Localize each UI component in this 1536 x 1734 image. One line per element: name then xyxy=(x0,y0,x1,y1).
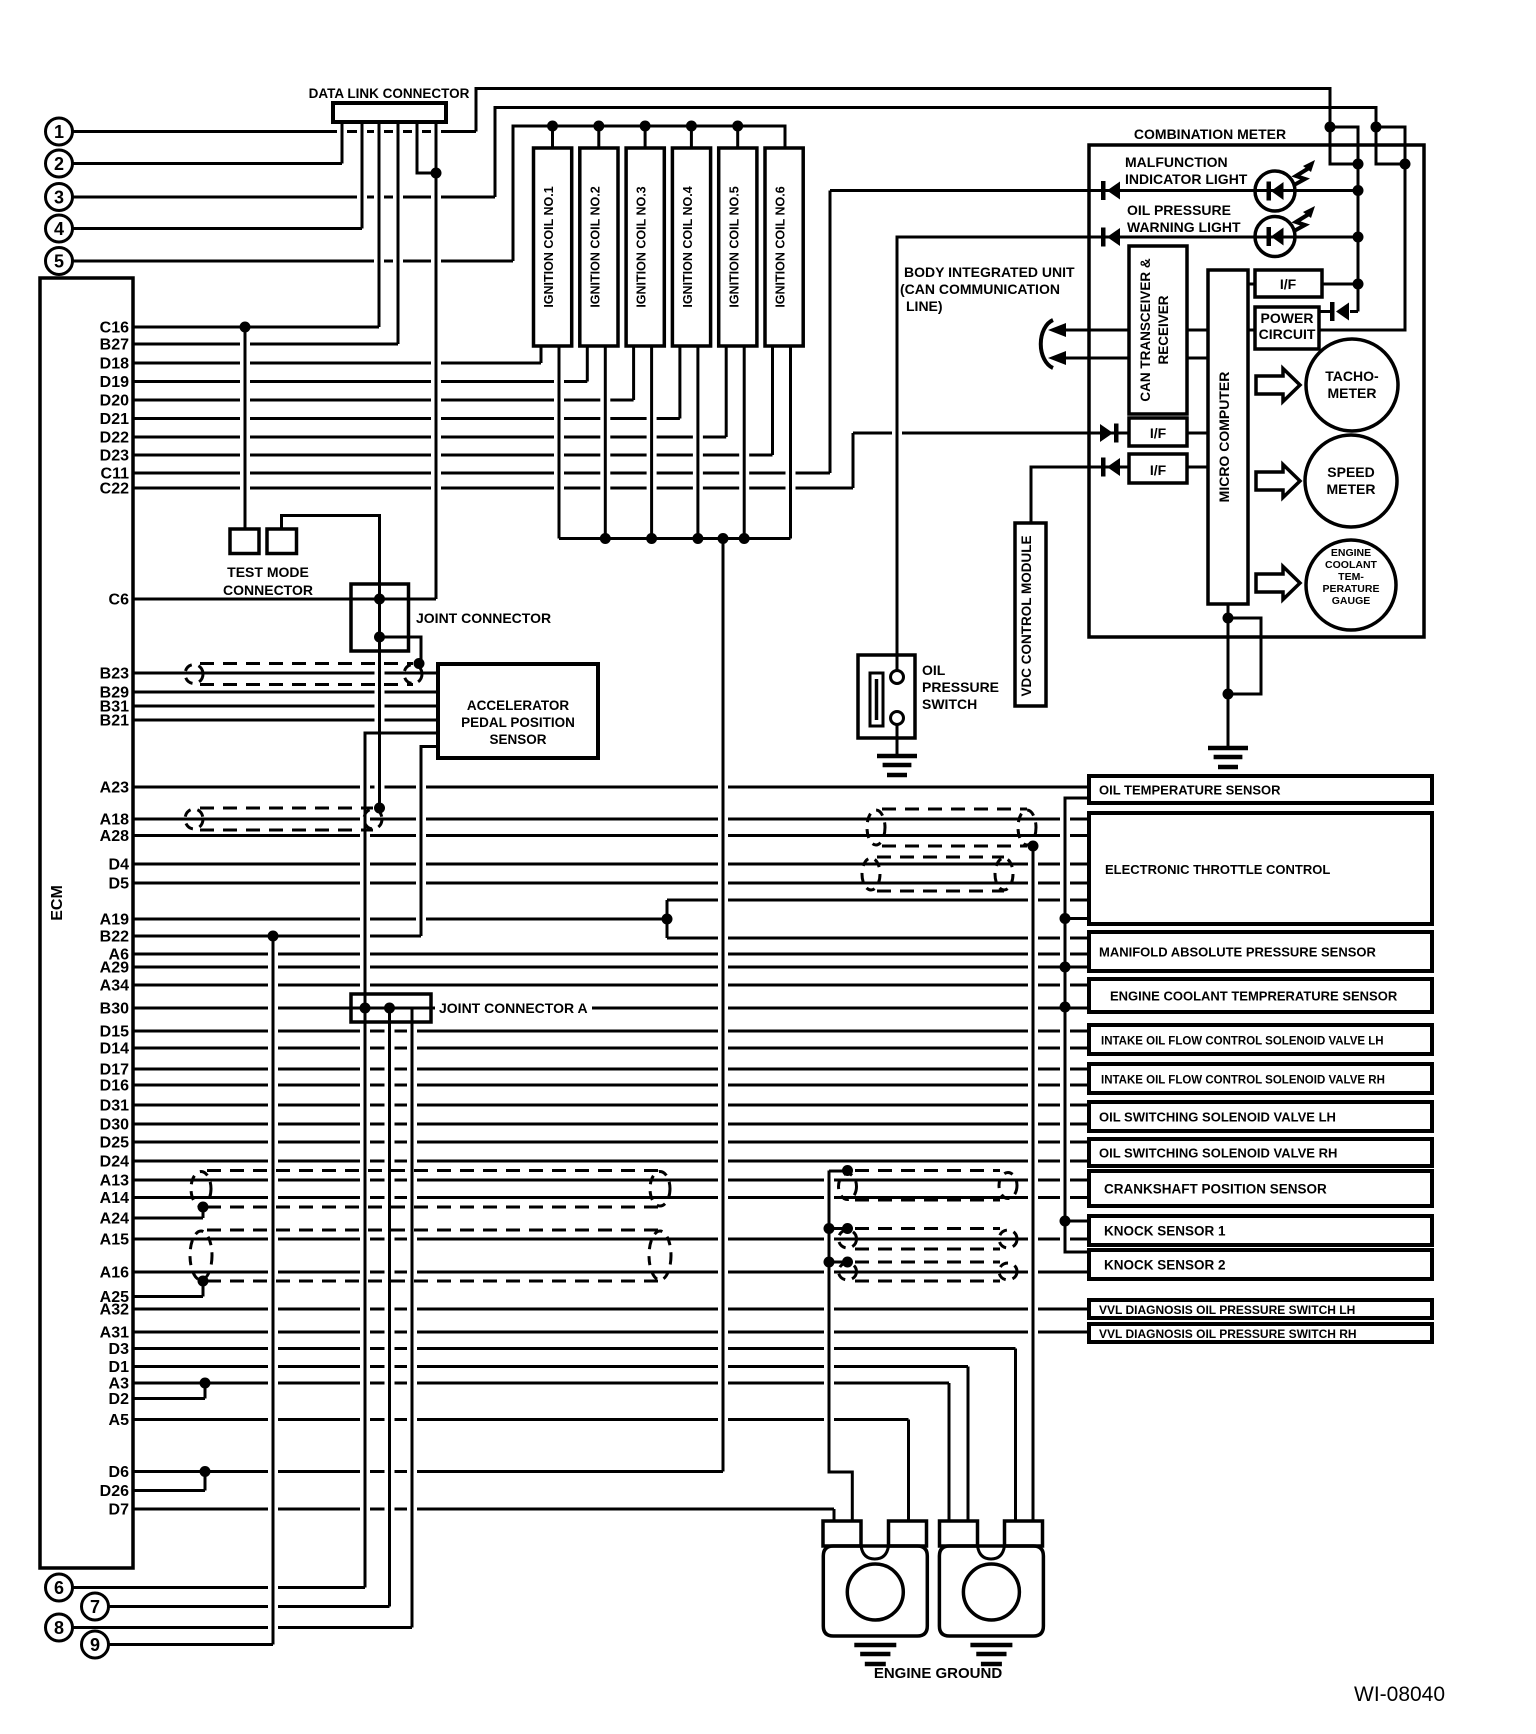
wire A34 to coolant temperature sensor xyxy=(133,984,1089,987)
svg-text:D2: D2 xyxy=(109,1391,130,1408)
svg-text:A15: A15 xyxy=(100,1232,129,1249)
svg-text:ACCELERATOR: ACCELERATOR xyxy=(467,698,570,713)
svg-text:ENGINE GROUND: ENGINE GROUND xyxy=(874,1665,1003,1682)
svg-text:D21: D21 xyxy=(100,411,129,428)
oil switching solenoid valve LH box xyxy=(1089,1102,1432,1131)
junction shield mid-2b xyxy=(842,1223,853,1234)
oil pressure switch ground wire xyxy=(896,725,899,757)
wire B23 to accelerator pedal sensor xyxy=(133,672,438,675)
svg-text:VDC CONTROL MODULE: VDC CONTROL MODULE xyxy=(1019,536,1034,697)
wire C6 to joint connector xyxy=(133,598,436,601)
manifold absolute pressure sensor box label xyxy=(1099,945,1376,960)
micro computer label xyxy=(1216,372,1232,503)
wire from terminal 1 xyxy=(73,89,1359,165)
sensor ground bus wire xyxy=(1065,798,1089,1252)
wire D3 trunk xyxy=(133,1347,1016,1350)
diode MIL input xyxy=(1101,181,1120,200)
coil ground pins xyxy=(559,346,791,539)
malfunction indicator light label xyxy=(1125,154,1248,187)
engine ground label xyxy=(874,1665,1003,1682)
ignition coil NO.2 box xyxy=(580,148,618,346)
CAN bus wires to body integrated unit xyxy=(1062,330,1129,358)
wire I/F top to supply xyxy=(1322,283,1358,286)
test mode connector terminal 1 xyxy=(230,529,259,554)
I/F top label xyxy=(1280,276,1297,292)
svg-text:2: 2 xyxy=(54,154,64,174)
svg-text:MANIFOLD ABSOLUTE PRESSURE SEN: MANIFOLD ABSOLUTE PRESSURE SENSOR xyxy=(1099,945,1376,960)
wire A16 to knock sensor 2 xyxy=(133,1271,1089,1274)
svg-text:RECEIVER: RECEIVER xyxy=(1156,295,1171,364)
junction shield A18/A28 drain xyxy=(1028,841,1039,852)
junction JCA-1 xyxy=(360,1003,371,1014)
ignition coil NO.4 box xyxy=(672,148,710,346)
oil pressure switch ground xyxy=(877,756,917,775)
electronic throttle control box xyxy=(1089,813,1432,924)
svg-text:D31: D31 xyxy=(100,1098,129,1115)
wire from terminal 3 xyxy=(73,108,1406,198)
intake oil flow control solenoid valve LH box xyxy=(1089,1025,1432,1054)
shield around A13/A14 wires xyxy=(191,1171,670,1208)
wire B31 to accelerator pedal sensor xyxy=(133,705,438,708)
svg-text:A24: A24 xyxy=(100,1211,129,1228)
svg-text:D16: D16 xyxy=(100,1078,129,1095)
joint connector A box xyxy=(351,994,431,1022)
crankshaft position sensor box label xyxy=(1104,1182,1327,1197)
wire D17 to solenoid valve xyxy=(133,1068,1089,1071)
I/F box top xyxy=(1255,270,1322,297)
shield around A15/A16 wires xyxy=(190,1230,671,1281)
svg-text:METER: METER xyxy=(1327,481,1376,497)
svg-text:POWER: POWER xyxy=(1261,310,1314,326)
ECM connector box xyxy=(40,278,133,1568)
engine ground lug right xyxy=(939,1546,1043,1636)
node 6 (circled terminal 6) xyxy=(46,1574,73,1601)
knock sensor 1 box label xyxy=(1104,1224,1226,1239)
svg-text:INDICATOR LIGHT: INDICATOR LIGHT xyxy=(1125,171,1248,187)
diode I/F 3 xyxy=(1101,458,1120,477)
wire D1 drop to engine ground xyxy=(967,1367,970,1521)
wire A32 to VVL oil pressure switch LH xyxy=(133,1308,1089,1311)
svg-text:SPEED: SPEED xyxy=(1327,464,1374,480)
wire terminal 8 xyxy=(73,1626,413,1629)
I/F box 2 xyxy=(1129,418,1187,446)
wire D30 to solenoid valve xyxy=(133,1123,1089,1126)
diode power circuit xyxy=(1330,302,1349,321)
svg-text:5: 5 xyxy=(54,252,64,272)
svg-text:C22: C22 xyxy=(100,481,129,498)
shield around A18/A28 wires (throttle) xyxy=(867,809,1036,846)
wire D18 to ignition coil 1 xyxy=(133,362,541,365)
CAN transceiver box xyxy=(1129,246,1187,414)
coil supply stubs xyxy=(553,126,738,148)
coil 1 signal pin xyxy=(540,346,543,363)
wire A5 drop to engine ground xyxy=(907,1420,910,1521)
malfunction indicator LED xyxy=(1255,171,1295,211)
coil bus junctions xyxy=(600,533,750,544)
sensor ground bus stubs xyxy=(1065,919,1089,1222)
wire A3 drop to engine ground xyxy=(948,1383,951,1520)
CAN arrowhead 1 xyxy=(1048,323,1066,337)
shield around A13/A14 wires (mid) xyxy=(829,1171,1017,1201)
junction OPW xyxy=(1353,232,1364,243)
svg-text:IGNITION COIL NO.2: IGNITION COIL NO.2 xyxy=(588,186,602,307)
oil switching solenoid valve RH box xyxy=(1089,1139,1432,1166)
shield around D4/D5 wires (throttle) xyxy=(862,857,1013,891)
svg-text:CRANKSHAFT POSITION SENSOR: CRANKSHAFT POSITION SENSOR xyxy=(1104,1182,1327,1197)
svg-text:INTAKE OIL FLOW CONTROL SOLENO: INTAKE OIL FLOW CONTROL SOLENOID VALVE R… xyxy=(1101,1075,1385,1087)
oil pressure switch label xyxy=(922,662,999,712)
svg-text:A32: A32 xyxy=(100,1302,129,1319)
svg-text:D22: D22 xyxy=(100,430,129,447)
oil pressure switch contact xyxy=(870,673,883,726)
ECM pin labels xyxy=(100,320,129,1519)
node 9 (circled terminal 9) xyxy=(82,1631,109,1658)
wire A13 to crankshaft position sensor xyxy=(133,1179,1089,1182)
wire A19 trunk xyxy=(133,918,667,921)
svg-text:WARNING LIGHT: WARNING LIGHT xyxy=(1127,219,1241,235)
junction meter ground a xyxy=(1223,613,1234,624)
svg-text:LINE): LINE) xyxy=(906,298,943,314)
svg-text:C16: C16 xyxy=(100,320,129,337)
meter ground wire xyxy=(1228,604,1261,748)
svg-text:D25: D25 xyxy=(100,1135,129,1152)
junction B23 shield drain xyxy=(414,658,425,669)
svg-text:D4: D4 xyxy=(109,857,130,874)
wire JCA drop to terminal 8 xyxy=(390,1008,413,1628)
svg-text:D20: D20 xyxy=(100,393,129,410)
wire D15 to solenoid valve xyxy=(133,1030,1089,1033)
svg-text:A13: A13 xyxy=(100,1173,129,1190)
combination meter box xyxy=(1089,145,1424,637)
junction JCA-2 xyxy=(384,1003,395,1014)
oil pressure switch box xyxy=(858,655,915,738)
svg-text:D23: D23 xyxy=(100,448,129,465)
junction shield A15/A16 to A25 xyxy=(198,1276,209,1287)
shield around A15 wire (mid) xyxy=(829,1229,1017,1250)
test mode connector wire to joint connector xyxy=(282,516,380,600)
DLC pin 4 stub xyxy=(397,122,400,344)
svg-text:D14: D14 xyxy=(100,1041,129,1058)
svg-text:A18: A18 xyxy=(100,812,129,829)
node 2 (circled terminal 2) xyxy=(46,150,73,177)
VDC control module wire xyxy=(1031,467,1129,523)
wire B21 to accelerator pedal sensor xyxy=(133,719,438,722)
svg-text:8: 8 xyxy=(54,1618,64,1638)
wire D3 drop to engine ground xyxy=(1014,1349,1017,1521)
power circuit label xyxy=(1259,310,1316,342)
wire APPS pin6 xyxy=(421,747,438,937)
wire D14 to solenoid valve xyxy=(133,1047,1089,1050)
svg-text:ENGINE COOLANT TEMPRERATURE SE: ENGINE COOLANT TEMPRERATURE SENSOR xyxy=(1110,989,1398,1004)
svg-text:D19: D19 xyxy=(100,374,129,391)
coil 2 signal pin xyxy=(586,346,589,382)
joint connector shield wire xyxy=(380,599,422,808)
junction w3 b xyxy=(1400,159,1411,170)
wire A3 trunk xyxy=(133,1382,949,1385)
svg-text:A29: A29 xyxy=(100,960,129,977)
diagram number xyxy=(1354,1683,1445,1706)
svg-text:I/F: I/F xyxy=(1150,462,1167,478)
tachometer dial xyxy=(1306,339,1398,431)
svg-text:KNOCK SENSOR 2: KNOCK SENSOR 2 xyxy=(1104,1258,1226,1273)
oil switching solenoid valve RH box label xyxy=(1099,1146,1337,1161)
ignition coil NO.3 box xyxy=(626,148,664,346)
junction w3 a xyxy=(1371,122,1382,133)
wire A25 to shield xyxy=(133,1281,203,1297)
test mode connector drop xyxy=(244,327,247,529)
wire JCA drop to terminal 7 xyxy=(388,1008,391,1607)
micro computer box xyxy=(1208,270,1248,604)
CAN arrowhead 2 xyxy=(1048,351,1066,365)
ignition coil NO.6 label xyxy=(774,186,788,307)
svg-text:3: 3 xyxy=(54,188,64,208)
svg-text:D24: D24 xyxy=(100,1154,129,1171)
svg-text:PEDAL POSITION: PEDAL POSITION xyxy=(461,715,575,730)
oil temperature sensor box xyxy=(1089,776,1432,803)
knock sensor 1 box xyxy=(1089,1216,1432,1245)
wire D5 to electronic throttle control xyxy=(133,882,1089,885)
svg-text:COMBINATION METER: COMBINATION METER xyxy=(1134,126,1286,142)
power circuit lower supply xyxy=(1319,164,1405,330)
power circuit box xyxy=(1255,307,1319,349)
ignition coil NO.5 label xyxy=(727,186,741,307)
svg-text:OIL PRESSURE: OIL PRESSURE xyxy=(1127,202,1231,218)
wire from terminal 2 to DLC pin 1 xyxy=(73,122,343,164)
wire C16 to DLC pin 3 xyxy=(133,326,379,329)
junction w1 b xyxy=(1353,159,1364,170)
engine ground left symbol xyxy=(854,1645,896,1664)
coil supply junctions xyxy=(547,121,743,132)
wire A23 to oil temperature sensor xyxy=(133,786,1089,789)
knock sensor 2 box label xyxy=(1104,1258,1226,1273)
svg-text:IGNITION COIL NO.5: IGNITION COIL NO.5 xyxy=(727,186,741,307)
junction A18 shield drain xyxy=(374,803,385,814)
wire D1 trunk xyxy=(133,1365,968,1368)
engine coolant temperature sensor box label xyxy=(1110,989,1398,1004)
coolant gauge dial xyxy=(1306,540,1396,630)
oil switching solenoid valve LH box label xyxy=(1099,1110,1336,1125)
wire C6 riser to DLC xyxy=(435,173,438,599)
wire D4 to electronic throttle control xyxy=(133,863,1089,866)
wire D21 to ignition coil 4 xyxy=(133,417,680,420)
svg-text:D5: D5 xyxy=(109,876,130,893)
wire D24 to solenoid valve xyxy=(133,1160,1089,1163)
wire D19 to ignition coil 2 xyxy=(133,380,587,383)
svg-text:IGNITION COIL NO.6: IGNITION COIL NO.6 xyxy=(774,186,788,307)
combination meter label xyxy=(1134,126,1286,142)
wire B29 to accelerator pedal sensor xyxy=(133,691,438,694)
data link connector label xyxy=(309,86,470,101)
junction I/F top xyxy=(1353,279,1364,290)
CAN transceiver label xyxy=(1138,258,1171,402)
oil temperature sensor box label xyxy=(1099,783,1281,798)
svg-text:A5: A5 xyxy=(109,1412,130,1429)
electronic throttle control box label xyxy=(1105,862,1330,877)
ignition coil NO.4 label xyxy=(681,186,695,307)
engine ground right symbol xyxy=(970,1645,1012,1664)
svg-text:JOINT CONNECTOR A: JOINT CONNECTOR A xyxy=(439,1000,588,1016)
svg-text:VVL DIAGNOSIS OIL PRESSURE SWI: VVL DIAGNOSIS OIL PRESSURE SWITCH LH xyxy=(1099,1303,1355,1317)
oil pressure warning wire xyxy=(897,237,1358,672)
joint connector box xyxy=(351,584,409,651)
wire D6 to coil ground bus xyxy=(133,1470,723,1473)
wire C22 riser and I/F feed xyxy=(853,433,1129,488)
svg-text:WI-08040: WI-08040 xyxy=(1354,1683,1445,1706)
wire A29 to manifold pressure sensor xyxy=(133,966,1089,969)
coil 3 signal pin xyxy=(632,346,635,400)
wire C11 to malfunction indicator light xyxy=(133,472,830,475)
CAN line arc xyxy=(1041,320,1053,368)
diode OPW input xyxy=(1101,228,1120,247)
junction joint connector C6 xyxy=(374,594,385,605)
svg-text:I/F: I/F xyxy=(1150,425,1167,441)
svg-text:(CAN COMMUNICATION: (CAN COMMUNICATION xyxy=(900,281,1060,297)
malfunction indicator LED arrows xyxy=(1294,160,1315,185)
I/F box 3 xyxy=(1129,454,1187,483)
power circuit diode wire xyxy=(1319,164,1358,312)
junction A19 xyxy=(662,914,673,925)
svg-text:TEST MODE: TEST MODE xyxy=(227,564,309,580)
svg-text:OIL SWITCHING SOLENOID VALVE R: OIL SWITCHING SOLENOID VALVE RH xyxy=(1099,1146,1337,1161)
svg-text:ECM: ECM xyxy=(49,885,66,921)
wire APPS pin5 xyxy=(365,733,438,1588)
joint connector A label xyxy=(439,1000,588,1016)
junction meter ground b xyxy=(1223,689,1234,700)
wire D25 to solenoid valve xyxy=(133,1141,1089,1144)
svg-text:D30: D30 xyxy=(100,1117,129,1134)
svg-text:D15: D15 xyxy=(100,1024,129,1041)
node 8 (circled terminal 8) xyxy=(46,1614,73,1641)
svg-text:OIL TEMPERATURE SENSOR: OIL TEMPERATURE SENSOR xyxy=(1099,783,1281,798)
svg-text:CONNECTOR: CONNECTOR xyxy=(223,582,313,598)
junction shield mid-3b xyxy=(842,1257,853,1268)
intake oil flow control solenoid valve RH box xyxy=(1089,1064,1432,1093)
wire A6 to manifold pressure sensor xyxy=(133,953,1089,956)
wire C22 to meter I/F xyxy=(133,487,853,490)
svg-text:METER: METER xyxy=(1328,385,1377,401)
svg-text:IGNITION COIL NO.3: IGNITION COIL NO.3 xyxy=(635,186,649,307)
svg-text:C6: C6 xyxy=(109,592,130,609)
svg-text:OIL: OIL xyxy=(922,662,946,678)
wire D31 to solenoid valve xyxy=(133,1104,1089,1107)
data link connector box xyxy=(333,103,446,122)
oil pressure warning LED xyxy=(1255,217,1295,257)
svg-text:B22: B22 xyxy=(100,929,129,946)
crankshaft position sensor box xyxy=(1089,1171,1432,1206)
wire A14 to crankshaft position sensor xyxy=(133,1196,1089,1199)
junction DLC pins 5-6 xyxy=(431,168,442,179)
ignition coil NO.5 box xyxy=(719,148,757,346)
junction ground bus 1007 xyxy=(1060,1002,1071,1013)
ignition coil NO.1 box xyxy=(534,148,572,346)
accelerator pedal position sensor box xyxy=(438,664,598,758)
wire A24 to shield xyxy=(133,1207,203,1218)
wire D7 drop to engine ground xyxy=(833,1509,836,1520)
svg-text:ELECTRONIC THROTTLE CONTROL: ELECTRONIC THROTTLE CONTROL xyxy=(1105,862,1330,877)
wire B27 to DLC pin 4 xyxy=(133,343,398,346)
coil ground drop wire xyxy=(722,539,725,1472)
svg-text:I/F: I/F xyxy=(1280,276,1297,292)
wire terminal 7 xyxy=(109,1605,390,1608)
shield around B23 wire xyxy=(185,664,422,685)
node 7 (circled terminal 7) xyxy=(82,1593,109,1620)
svg-text:B21: B21 xyxy=(100,713,129,730)
wire A28 to electronic throttle control xyxy=(133,834,1089,837)
meter ground xyxy=(1208,748,1248,767)
svg-text:TACHO-: TACHO- xyxy=(1325,368,1379,384)
oil pressure warning LED arrows xyxy=(1294,206,1315,231)
test mode connector label xyxy=(223,564,313,598)
svg-text:6: 6 xyxy=(54,1578,64,1598)
svg-text:D26: D26 xyxy=(100,1483,129,1500)
I/F 2 label xyxy=(1150,425,1167,441)
test mode connector terminal 2 xyxy=(267,529,297,554)
wire terminal 6 xyxy=(73,1586,366,1589)
wire malfunction indicator light xyxy=(830,189,1358,192)
node 3 (circled terminal 3) xyxy=(46,184,73,211)
VVL diagnosis oil pressure switch RH box label xyxy=(1099,1327,1357,1341)
svg-text:MICRO COMPUTER: MICRO COMPUTER xyxy=(1216,372,1232,503)
wire A31 to VVL oil pressure switch RH xyxy=(133,1331,1089,1334)
tachometer label xyxy=(1325,368,1379,401)
svg-text:A16: A16 xyxy=(100,1265,129,1282)
svg-text:A19: A19 xyxy=(100,912,129,929)
shield around A18 wire xyxy=(185,808,382,830)
svg-text:TEM-: TEM- xyxy=(1338,571,1364,583)
I/F 3 label xyxy=(1150,462,1167,478)
svg-text:SENSOR: SENSOR xyxy=(489,732,546,747)
VDC control module box xyxy=(1015,523,1046,706)
VVL diagnosis oil pressure switch LH box xyxy=(1089,1300,1432,1318)
joint connector label xyxy=(416,610,551,626)
ignition coil NO.1 label xyxy=(542,186,556,307)
svg-text:7: 7 xyxy=(90,1597,100,1617)
wire I/F3 supply xyxy=(1031,466,1089,469)
wire D16 to solenoid valve xyxy=(133,1084,1089,1087)
junction ground bus 1221 xyxy=(1060,1216,1071,1227)
coil 5 signal pin xyxy=(725,346,728,437)
speedometer dial xyxy=(1305,435,1397,527)
svg-text:IGNITION COIL NO.1: IGNITION COIL NO.1 xyxy=(542,186,556,307)
svg-text:OIL SWITCHING SOLENOID VALVE L: OIL SWITCHING SOLENOID VALVE LH xyxy=(1099,1110,1336,1125)
coil 4 signal pin xyxy=(678,346,681,419)
coil 6 signal pin xyxy=(771,346,774,455)
manifold absolute pressure sensor box xyxy=(1089,932,1432,971)
coolant gauge label xyxy=(1323,547,1380,607)
oil pressure switch terminals xyxy=(891,671,904,725)
DLC pin 5 stub xyxy=(417,122,436,173)
wire D22 to ignition coil 5 xyxy=(133,436,726,439)
wire C11 riser xyxy=(829,191,832,474)
junction B22 xyxy=(268,931,279,942)
wire A19 branches xyxy=(667,900,1089,938)
wire from terminal 5 to ignition coils xyxy=(73,126,786,261)
svg-text:PRESSURE: PRESSURE xyxy=(922,679,999,695)
svg-text:D17: D17 xyxy=(100,1062,129,1079)
coil ground bus xyxy=(559,537,791,540)
svg-text:4: 4 xyxy=(54,219,64,239)
wire D26 to D6 xyxy=(133,1472,205,1491)
wire D2 to A3 xyxy=(133,1383,205,1399)
engine ground lug right terminals xyxy=(940,1521,1043,1559)
engine ground lug left xyxy=(823,1546,927,1636)
intake oil flow control solenoid valve RH box label xyxy=(1101,1075,1385,1087)
junction shield mid-2a xyxy=(824,1223,835,1234)
body integrated unit label xyxy=(900,264,1075,314)
ECM label xyxy=(49,885,66,921)
svg-text:B23: B23 xyxy=(100,666,129,683)
svg-text:CIRCUIT: CIRCUIT xyxy=(1259,326,1316,342)
